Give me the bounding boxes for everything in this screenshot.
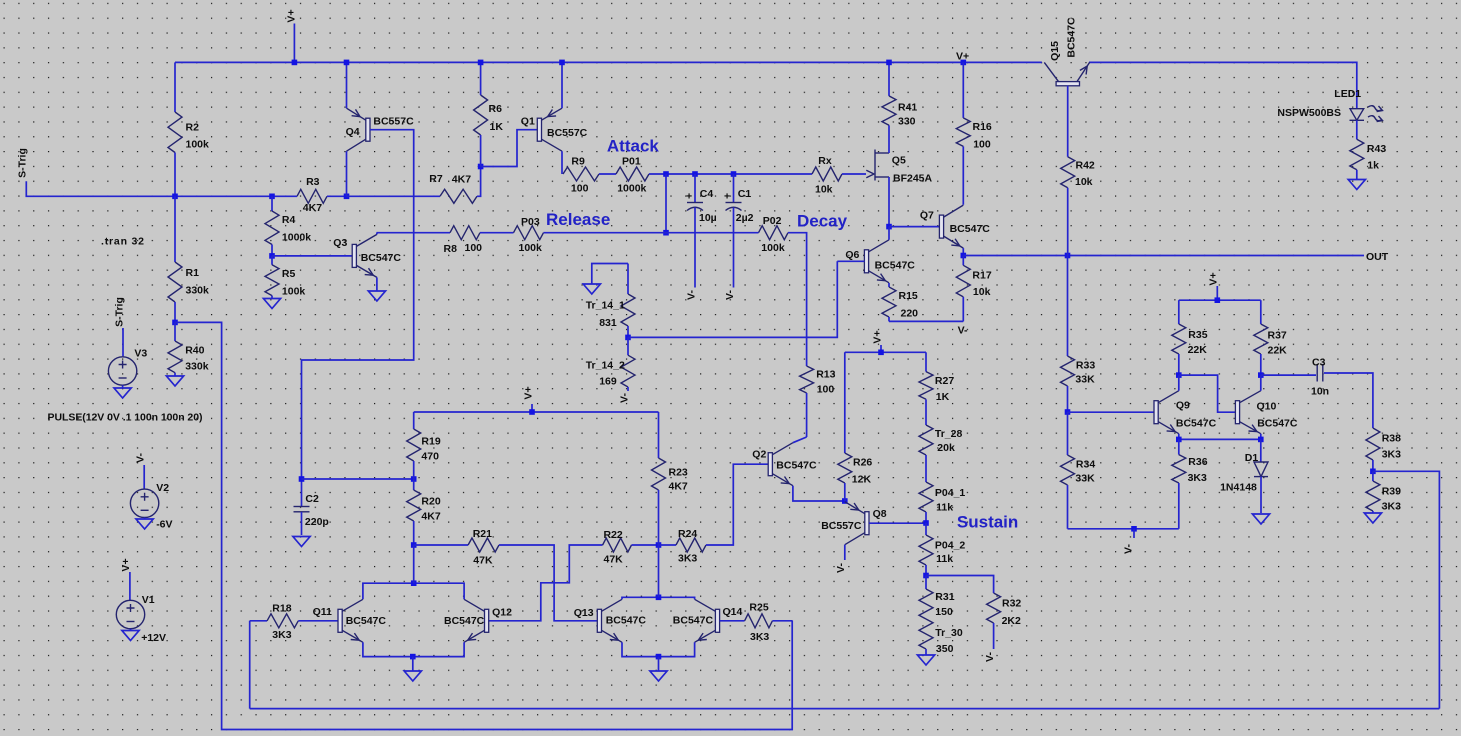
ground latch1	[404, 657, 421, 681]
junction	[292, 60, 298, 66]
net flag V- Q8	[835, 563, 847, 573]
wire latch1 collectors	[363, 583, 464, 599]
svg-text:BC547C: BC547C	[875, 259, 916, 271]
label R40	[185, 345, 204, 357]
svg-text:V1: V1	[142, 594, 155, 606]
svg-text:10µ: 10µ	[699, 212, 717, 224]
svg-text:Q2: Q2	[752, 449, 766, 461]
label BF245A	[893, 173, 933, 185]
svg-text:3K3: 3K3	[1382, 501, 1401, 513]
label Q6	[845, 249, 859, 261]
svg-text:BC557C: BC557C	[821, 520, 862, 532]
label BC547C Q15	[1066, 17, 1078, 58]
junction	[478, 164, 484, 170]
wire R38 to bottom	[1373, 471, 1440, 708]
label 11k P04_1	[936, 502, 953, 514]
label 3K3 R36	[1188, 472, 1207, 484]
wire	[272, 195, 297, 197]
wire Q2 emitter	[793, 486, 845, 501]
junction	[1258, 437, 1264, 443]
wire emitters Q9Q10	[1179, 434, 1261, 440]
svg-text:BC547C: BC547C	[444, 615, 485, 627]
ground C2	[293, 537, 310, 547]
label 2u2 C1	[736, 212, 754, 224]
resistor P01	[616, 167, 649, 181]
label BC547C Q6	[875, 259, 916, 271]
transistor Q11	[338, 599, 363, 642]
svg-text:1k: 1k	[1367, 160, 1379, 172]
wire	[250, 620, 267, 622]
label R21	[473, 528, 492, 540]
svg-text:4K7: 4K7	[303, 202, 322, 214]
svg-text:R41: R41	[898, 102, 917, 114]
wire	[889, 320, 963, 322]
ground R5	[263, 299, 280, 309]
resistor P03	[514, 226, 544, 240]
label 100k P03	[519, 242, 543, 254]
svg-text:R16: R16	[973, 121, 992, 133]
label R5	[282, 268, 296, 280]
wire	[480, 232, 514, 234]
wire	[413, 545, 415, 583]
svg-text:Rx: Rx	[818, 155, 832, 167]
svg-text:R43: R43	[1367, 143, 1386, 155]
svg-text:OUT: OUT	[1366, 251, 1389, 263]
resistor R8	[450, 226, 480, 240]
svg-text:V3: V3	[134, 347, 147, 359]
transistor Q6	[864, 240, 889, 283]
wire	[26, 181, 272, 196]
label + C1	[724, 191, 730, 203]
resistor R16	[956, 62, 970, 204]
wire	[298, 620, 338, 622]
svg-text:V+: V+	[120, 558, 132, 571]
wire Q14 base	[720, 620, 745, 622]
svg-text:R31: R31	[935, 591, 954, 603]
wire	[1179, 299, 1261, 301]
net flag V- Tr14	[619, 393, 631, 403]
label BC547C Q10	[1257, 417, 1298, 429]
resistor R32	[987, 593, 1001, 649]
net flag V- C1	[724, 290, 736, 300]
label 10n	[1311, 386, 1329, 398]
svg-text:Tr_28: Tr_28	[935, 428, 963, 440]
label R39	[1382, 485, 1401, 497]
label V2	[156, 482, 169, 494]
label 33K R33	[1075, 373, 1095, 385]
net flag V+ top	[286, 9, 298, 62]
label V3	[134, 347, 147, 359]
svg-text:BC547C: BC547C	[673, 615, 714, 627]
label 33K R34	[1075, 472, 1095, 484]
junction	[1370, 469, 1376, 475]
net flag OUT	[1366, 251, 1389, 263]
svg-text:R13: R13	[816, 368, 835, 380]
label R43	[1367, 143, 1386, 155]
svg-text:R17: R17	[972, 270, 991, 282]
label 100k	[282, 286, 306, 298]
svg-text:470: 470	[421, 450, 439, 462]
label BC557C Q4	[373, 116, 414, 128]
resistor R24	[676, 538, 706, 552]
wire Q4 base	[302, 130, 414, 479]
svg-text:R36: R36	[1188, 456, 1207, 468]
voltage source V2	[130, 489, 158, 517]
label Q2	[752, 449, 766, 461]
resistor R23	[652, 412, 666, 545]
junction	[344, 194, 350, 200]
wire Q4 collector	[346, 151, 348, 196]
junction	[269, 253, 275, 259]
label R24	[678, 528, 697, 540]
label R1	[186, 267, 200, 279]
wire R24 to Q2 base	[706, 464, 768, 545]
label R26	[853, 457, 872, 469]
label 1000k	[282, 232, 311, 244]
label 150	[935, 606, 953, 618]
wire	[414, 411, 659, 413]
net flag S-Trig	[17, 148, 29, 178]
transistor Q1	[537, 108, 562, 151]
wire	[665, 174, 667, 233]
junction	[663, 230, 669, 236]
junction	[269, 194, 275, 200]
resistor R6	[474, 62, 488, 166]
resistor R22	[603, 538, 632, 552]
resistor R31	[919, 576, 933, 620]
svg-text:Sustain: Sustain	[957, 513, 1018, 532]
svg-text:V-: V-	[686, 290, 698, 300]
svg-text:4K7: 4K7	[669, 481, 688, 493]
svg-text:BC547C: BC547C	[1066, 17, 1078, 58]
svg-text:100: 100	[973, 138, 991, 150]
net flag V- bottom	[1122, 529, 1134, 554]
svg-text:V-: V-	[958, 325, 968, 337]
label R15	[899, 290, 918, 302]
svg-text:R19: R19	[421, 435, 440, 447]
wire R22 to Q12	[489, 545, 603, 621]
svg-text:S-Trig: S-Trig	[17, 148, 29, 178]
capacitor C1	[726, 174, 742, 288]
junction	[1065, 409, 1071, 415]
svg-text:.tran 32: .tran 32	[101, 236, 144, 248]
wire	[772, 620, 792, 622]
wire Q15 base	[1067, 86, 1069, 157]
junction	[1176, 437, 1182, 443]
svg-text:C3: C3	[1312, 357, 1326, 369]
ground Tr_30	[917, 655, 934, 665]
wire	[926, 576, 994, 594]
label 2K2	[1002, 615, 1021, 627]
resistor R4	[265, 196, 279, 256]
svg-text:PULSE(12V 0V .1 100n 100n 20): PULSE(12V 0V .1 100n 100n 20)	[48, 412, 203, 424]
label Tr_14_2	[586, 360, 625, 372]
svg-text:R4: R4	[282, 214, 296, 226]
svg-text:+: +	[724, 191, 730, 203]
ground Q3	[368, 291, 385, 301]
label R18	[272, 603, 291, 615]
resistor R3	[297, 189, 327, 203]
label R22	[604, 529, 623, 541]
transistor Q13	[597, 599, 622, 642]
svg-text:R6: R6	[489, 103, 503, 115]
label Q13	[574, 607, 594, 619]
svg-text:Q7: Q7	[920, 209, 934, 221]
junction	[1065, 253, 1071, 259]
ground V2	[136, 518, 153, 529]
svg-text:Q3: Q3	[333, 237, 347, 249]
junction	[172, 194, 178, 200]
label 100 R9	[571, 183, 589, 195]
label R37	[1268, 330, 1287, 342]
label BC557C Q1	[547, 127, 588, 139]
label 330 R41	[898, 115, 916, 127]
svg-text:NSPW500BS: NSPW500BS	[1277, 107, 1341, 119]
svg-text:Tr_14_2: Tr_14_2	[586, 360, 625, 372]
svg-text:Q11: Q11	[313, 606, 332, 618]
wire	[347, 195, 441, 197]
resistor Tr_14_2	[621, 337, 635, 391]
svg-text:20k: 20k	[937, 442, 955, 454]
capacitor C3	[1317, 364, 1323, 382]
svg-text:4K7: 4K7	[421, 510, 440, 522]
svg-text:+: +	[686, 191, 692, 203]
svg-text:R21: R21	[473, 528, 492, 540]
svg-text:220: 220	[901, 307, 919, 319]
label 3K3 R39	[1382, 501, 1401, 513]
svg-text:BC547C: BC547C	[361, 252, 402, 264]
label 169	[599, 376, 617, 388]
svg-text:330k: 330k	[186, 285, 210, 297]
wire Q3 emitter	[376, 277, 378, 291]
label R2	[186, 122, 200, 134]
svg-text:Q15: Q15	[1049, 41, 1061, 61]
label C4	[700, 188, 714, 200]
wire	[845, 351, 926, 353]
svg-text:P03: P03	[521, 216, 540, 228]
transistor Q8	[845, 502, 869, 545]
directive .tran 32	[101, 236, 144, 248]
label 100k P02	[761, 242, 785, 254]
voltage source V1	[116, 600, 144, 628]
svg-text:150: 150	[935, 606, 953, 618]
junction	[923, 520, 929, 526]
junction	[1258, 372, 1264, 378]
svg-text:BC547C: BC547C	[1257, 417, 1298, 429]
svg-text:+12V: +12V	[141, 632, 166, 644]
label BC547C Q9	[1176, 417, 1217, 429]
resistor Rx	[812, 167, 842, 181]
comment Decay	[797, 212, 848, 231]
svg-text:V-: V-	[835, 563, 847, 573]
label R19	[421, 435, 440, 447]
svg-text:Q10: Q10	[1257, 400, 1277, 412]
svg-text:Q4: Q4	[346, 126, 360, 138]
net flag S-Trig 2	[114, 297, 126, 356]
label 4K7 R7	[452, 174, 471, 186]
svg-text:Tr_30: Tr_30	[935, 627, 963, 639]
svg-text:Q12: Q12	[492, 607, 512, 619]
wire	[250, 708, 1440, 710]
wire Q1 base	[481, 130, 538, 167]
label D1	[1245, 452, 1259, 464]
junction	[961, 253, 967, 259]
resistor R21	[468, 538, 499, 552]
label V1	[142, 594, 155, 606]
svg-text:Q6: Q6	[845, 249, 859, 261]
label R8	[444, 243, 458, 255]
LED LED1	[1350, 106, 1383, 122]
comment Sustain	[957, 513, 1018, 532]
svg-text:100k: 100k	[519, 242, 543, 254]
label Q3	[333, 237, 347, 249]
resistor R27	[919, 352, 933, 425]
svg-text:R38: R38	[1382, 433, 1401, 445]
label 100 R16	[973, 138, 991, 150]
label Q10	[1257, 400, 1277, 412]
junction	[961, 60, 967, 66]
label R35	[1188, 329, 1207, 341]
svg-text:330: 330	[898, 115, 916, 127]
resistor R41	[882, 62, 896, 125]
junction	[478, 60, 484, 66]
label R33	[1076, 360, 1095, 372]
label 10u C4	[699, 212, 717, 224]
label 100k	[186, 139, 210, 151]
svg-text:V-: V-	[984, 652, 996, 662]
label R27	[935, 375, 954, 387]
svg-text:831: 831	[599, 317, 617, 329]
voltage source V3	[108, 357, 136, 385]
label BC547C Q7	[950, 223, 991, 235]
label C2	[305, 493, 319, 505]
svg-text:3K3: 3K3	[678, 553, 697, 565]
label 831	[599, 317, 617, 329]
svg-text:R18: R18	[272, 603, 291, 615]
svg-text:BC547C: BC547C	[776, 459, 817, 471]
label R42	[1076, 159, 1095, 171]
label 20k	[937, 442, 955, 454]
svg-text:R9: R9	[571, 155, 585, 167]
svg-text:100: 100	[571, 183, 589, 195]
svg-text:V+: V+	[871, 330, 883, 343]
svg-text:3K3: 3K3	[272, 629, 291, 641]
wire	[666, 232, 759, 234]
svg-text:Q5: Q5	[892, 155, 906, 167]
label 10k Rx	[815, 183, 833, 195]
label 220 R15	[901, 307, 919, 319]
net flag V- C4	[686, 290, 698, 300]
svg-text:P04_1: P04_1	[935, 487, 966, 499]
svg-text:10k: 10k	[973, 286, 991, 298]
svg-text:R15: R15	[899, 290, 918, 302]
label Q14	[723, 606, 743, 618]
wire latch2 emitters	[622, 642, 695, 656]
resistor R19	[407, 412, 421, 479]
label P03	[521, 216, 540, 228]
net flag V+ right	[1208, 272, 1220, 300]
resistor Tr_28	[919, 425, 933, 482]
resistor R2	[168, 62, 182, 196]
label R31	[935, 591, 954, 603]
svg-text:C1: C1	[738, 188, 752, 200]
svg-text:2µ2: 2µ2	[736, 212, 754, 224]
label Q9	[1176, 400, 1190, 412]
label 3K3 R38	[1382, 449, 1401, 461]
label 11k P04_2	[936, 553, 953, 565]
label Tr_28	[935, 428, 963, 440]
svg-text:33K: 33K	[1075, 373, 1095, 385]
transistor Q10	[1235, 391, 1260, 434]
svg-text:R37: R37	[1268, 330, 1287, 342]
svg-text:R32: R32	[1002, 598, 1021, 610]
svg-text:V+: V+	[522, 386, 534, 399]
label R4	[282, 214, 296, 226]
svg-text:100k: 100k	[761, 242, 785, 254]
svg-text:10n: 10n	[1311, 386, 1329, 398]
label R38	[1382, 433, 1401, 445]
label C3	[1312, 357, 1326, 369]
svg-text:C4: C4	[700, 188, 714, 200]
wire Q5 drain	[888, 125, 890, 153]
transistor Q14	[695, 599, 720, 642]
label C1	[738, 188, 752, 200]
wire	[963, 255, 1364, 257]
wire Q7 emitter	[962, 248, 964, 255]
wire Q6 collector	[888, 227, 890, 240]
svg-text:S-Trig: S-Trig	[114, 297, 126, 327]
wire latch2 collectors	[622, 597, 695, 599]
junction	[559, 60, 565, 66]
svg-text:V-: V-	[619, 393, 631, 403]
net flag V- R17	[958, 325, 968, 337]
label R23	[669, 467, 688, 479]
svg-text:4K7: 4K7	[452, 174, 471, 186]
resistor R9	[563, 167, 599, 181]
resistor R20	[407, 479, 421, 545]
svg-text:3K3: 3K3	[1188, 472, 1207, 484]
wire Q6 base	[837, 260, 864, 262]
transistor Q12	[464, 599, 489, 642]
svg-text:1K: 1K	[936, 391, 950, 403]
wire	[175, 61, 1042, 63]
resistor R40	[168, 322, 182, 376]
transistor Q2	[768, 443, 793, 486]
resistor R35	[1172, 300, 1186, 375]
label -6V	[156, 518, 172, 530]
junction	[299, 476, 305, 482]
svg-text:R24: R24	[678, 528, 697, 540]
transistor Q4	[347, 108, 371, 151]
wire Q2 collector	[793, 437, 807, 443]
label 22K R37	[1268, 345, 1288, 357]
svg-text:R26: R26	[853, 457, 872, 469]
label R3	[306, 176, 320, 188]
label BC547C Q2	[776, 459, 817, 471]
wire	[1089, 62, 1357, 108]
resistor R1	[168, 196, 182, 322]
wire R35 to Q10 base	[1179, 375, 1236, 412]
resistor R25	[745, 614, 773, 628]
label 330k	[185, 361, 209, 373]
label Rx	[818, 155, 832, 167]
resistor Tr_14_1	[621, 264, 635, 338]
label Tr_30	[935, 627, 963, 639]
svg-text:BC557C: BC557C	[373, 116, 414, 128]
svg-text:Q13: Q13	[574, 607, 594, 619]
label R25	[749, 602, 768, 614]
wire	[599, 173, 616, 175]
